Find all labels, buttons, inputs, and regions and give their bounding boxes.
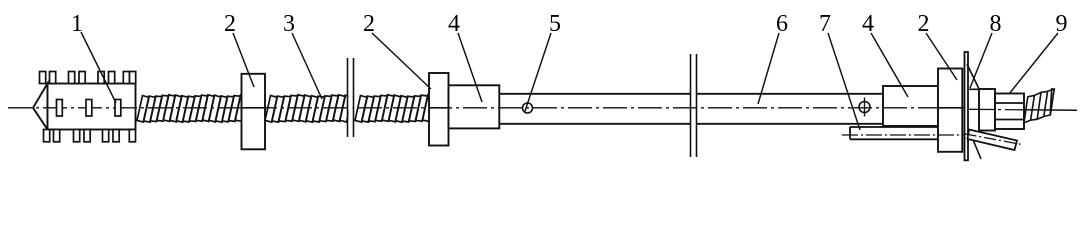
rod tube top line (left of break) bbox=[499, 93, 690, 95]
centerline right end bbox=[968, 108, 1024, 111]
axis solid through block 2 bbox=[429, 107, 449, 109]
washer block bbox=[979, 89, 995, 131]
vent hole circle right bbox=[859, 102, 870, 113]
threaded stub at right end bbox=[1024, 89, 1054, 123]
label 4 leader line bbox=[871, 33, 908, 97]
collar top edge bbox=[968, 88, 979, 90]
svg-text:2: 2 bbox=[224, 11, 236, 37]
label 6 leader line bbox=[758, 33, 779, 104]
axis solid through block 3 bbox=[938, 107, 962, 109]
threaded rod section item 3 (left) bbox=[137, 95, 247, 122]
centerline main axis bbox=[8, 107, 965, 109]
label 8 leader line bbox=[970, 33, 992, 88]
rod tube bottom line (left of break) bbox=[499, 123, 690, 125]
bearing plate item 8 bbox=[965, 52, 969, 160]
grout tube centerline bbox=[842, 134, 965, 136]
label 1 leader line bbox=[81, 32, 116, 103]
svg-text:6: 6 bbox=[776, 11, 788, 37]
label 2 leader line bbox=[233, 33, 254, 87]
anchor head inner clamps bbox=[57, 100, 121, 117]
svg-text:8: 8 bbox=[990, 11, 1002, 37]
anchor head top teeth bbox=[40, 72, 136, 84]
lower strut line bbox=[969, 130, 981, 159]
axis solid through block 1 bbox=[242, 107, 266, 109]
nut item 9 bbox=[995, 94, 1024, 130]
rod tube top line (right of break) bbox=[697, 93, 884, 95]
stopper block 2 (first) bbox=[242, 74, 266, 150]
nut upper facet line bbox=[995, 102, 1024, 104]
anchor head bottom teeth bbox=[44, 130, 136, 142]
break lines on threaded rod bbox=[347, 58, 349, 137]
threaded rod section (right) bbox=[355, 95, 435, 122]
break gap mask on threaded rod bbox=[348, 59, 352, 136]
svg-text:2: 2 bbox=[363, 11, 375, 37]
label 2 leader line bbox=[926, 33, 957, 80]
grout hole item 5 circle bbox=[523, 103, 533, 113]
grout tube diagonal outlet bbox=[968, 130, 1018, 151]
label 5 leader line bbox=[525, 33, 552, 113]
svg-text:2: 2 bbox=[918, 11, 930, 37]
svg-text:5: 5 bbox=[549, 11, 561, 37]
coupling sleeve 4 (right) bbox=[883, 86, 938, 126]
svg-text:3: 3 bbox=[283, 11, 295, 37]
rod tube bottom line (right of break) bbox=[697, 123, 884, 125]
grout tube item 7 horizontal part bbox=[850, 127, 938, 139]
svg-text:9: 9 bbox=[1056, 11, 1068, 37]
diagonal tube centerline bbox=[965, 134, 1024, 145]
svg-text:4: 4 bbox=[448, 11, 460, 37]
centerline solid tail right bbox=[1024, 109, 1077, 112]
coupling sleeve 4 (left) bbox=[449, 85, 500, 128]
label 7 leader line bbox=[828, 33, 860, 130]
svg-text:7: 7 bbox=[819, 11, 831, 37]
stub end cap bbox=[1050, 88, 1052, 116]
svg-text:4: 4 bbox=[862, 11, 874, 37]
threaded rod section (middle) bbox=[265, 95, 352, 122]
break lines on rod tube bbox=[690, 54, 692, 157]
stopper block 2 (third) bbox=[938, 69, 962, 152]
label 2 leader line bbox=[372, 33, 431, 89]
conical seat edge bbox=[967, 64, 980, 91]
anchor head body bbox=[48, 84, 136, 130]
svg-text:1: 1 bbox=[71, 11, 83, 37]
nut lower facet line bbox=[995, 119, 1024, 121]
label 4 leader line bbox=[458, 33, 482, 102]
label 9 leader line bbox=[1009, 33, 1058, 94]
label 3 leader line bbox=[292, 33, 322, 99]
stopper block 2 (second) bbox=[429, 73, 449, 146]
anchor head item 1: tip triangle bbox=[33, 84, 48, 130]
